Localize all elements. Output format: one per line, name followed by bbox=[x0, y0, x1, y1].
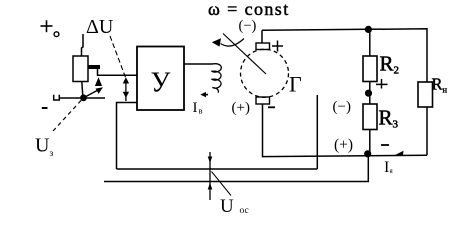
label minus bottom brush bbox=[268, 106, 275, 108]
pointer Uoc bbox=[212, 172, 232, 196]
wire amp output bbox=[184, 63, 213, 65]
pointer dU dashed bbox=[110, 36, 127, 80]
label minus R3 bbox=[381, 144, 389, 146]
node pot junction bbox=[80, 94, 87, 101]
svg-text:(−): (−) bbox=[239, 18, 257, 34]
svg-text:I: I bbox=[193, 100, 198, 116]
wire Rn bottom bbox=[426, 107, 428, 155]
arrow Uoc down bbox=[209, 152, 211, 200]
shaft line bbox=[223, 34, 266, 75]
pointer Uz dashed bbox=[53, 100, 82, 131]
rotation arrowhead bbox=[212, 38, 221, 46]
svg-text:У: У bbox=[151, 68, 171, 99]
wire generator bottom bbox=[263, 104, 428, 157]
resistor R2 bbox=[363, 56, 377, 82]
field coil L1 bbox=[212, 64, 221, 93]
amplifier box U bbox=[137, 47, 184, 111]
svg-text:ΔU: ΔU bbox=[86, 16, 114, 38]
feedback wire lower bbox=[104, 154, 368, 182]
resistor Rn bbox=[418, 82, 433, 107]
svg-text:U: U bbox=[220, 196, 234, 217]
wire bottom left bbox=[60, 97, 105, 99]
arrow dU double bottom bbox=[123, 92, 129, 98]
wire R2 bottom bbox=[369, 82, 371, 105]
wire pot bottom bbox=[82, 82, 83, 97]
potentiometer P1 bbox=[73, 56, 88, 82]
node bottom bus bbox=[364, 150, 371, 157]
svg-text:(+): (+) bbox=[232, 100, 250, 116]
arrow Iv bbox=[200, 92, 208, 97]
wiper arrow bbox=[86, 87, 103, 96]
svg-text:(−): (−) bbox=[333, 99, 351, 115]
resistor R3 bbox=[363, 104, 377, 130]
brush bottom bbox=[256, 97, 270, 104]
arrow load current bbox=[395, 151, 404, 155]
wire wiper to amp bbox=[98, 69, 138, 75]
brush top bbox=[256, 43, 270, 50]
node R2 R3 bbox=[365, 90, 372, 97]
terminal minus bbox=[42, 107, 48, 109]
label plus top brush bbox=[272, 41, 283, 52]
rotation arrow arc bbox=[221, 39, 245, 47]
terminal plus circle bbox=[54, 32, 59, 37]
svg-text:ω = const: ω = const bbox=[208, 0, 290, 19]
svg-text:ос: ос bbox=[240, 206, 249, 216]
arrow Uz up bbox=[95, 77, 102, 86]
wire R3 bottom bbox=[369, 130, 371, 154]
feedback wire upper bbox=[117, 168, 318, 170]
terminal minus circle bbox=[54, 95, 60, 100]
svg-text:в: в bbox=[199, 106, 203, 116]
wire generator top bbox=[261, 30, 263, 43]
feedback riser right bbox=[316, 95, 318, 169]
wire top bus bbox=[262, 29, 427, 82]
arrow Uoc up bbox=[208, 183, 213, 190]
wire R2 top bbox=[369, 29, 371, 56]
terminal plus bbox=[41, 20, 53, 32]
svg-text:(+): (+) bbox=[334, 137, 353, 154]
wiper bar bbox=[88, 65, 100, 69]
generator circle G bbox=[241, 49, 289, 97]
wire pot top bbox=[82, 34, 84, 56]
arrow dU double stem bbox=[125, 80, 127, 101]
label plus node bbox=[376, 79, 388, 89]
node top bus bbox=[365, 26, 372, 33]
wire amp bottom input bbox=[117, 103, 138, 170]
svg-text:Г: Г bbox=[289, 72, 302, 97]
arrow dU double top bbox=[123, 77, 129, 83]
